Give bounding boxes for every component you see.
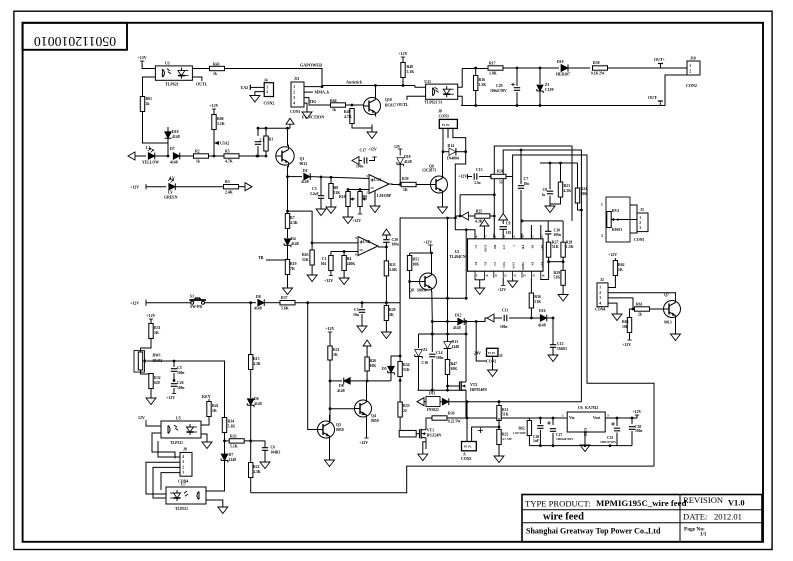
svg-text:1: 1 <box>639 216 641 220</box>
svg-text:100UF/50V: 100UF/50V <box>600 440 617 444</box>
drawing number box <box>23 23 127 50</box>
svg-text:8050: 8050 <box>371 419 379 423</box>
wire C10 rail <box>522 220 563 222</box>
opto U5 <box>161 421 201 438</box>
LED LV GREEN <box>169 183 176 190</box>
diode D18 <box>330 380 342 382</box>
svg-text:1K: 1K <box>212 409 217 413</box>
diode D19 <box>561 64 568 71</box>
capacitor C13 <box>468 176 473 178</box>
wire RV2 to J1 <box>616 219 637 221</box>
wire <box>250 86 264 88</box>
ground <box>584 441 586 445</box>
wire <box>192 68 209 70</box>
wire D14 right branch <box>455 152 475 239</box>
svg-text:VT2: VT2 <box>470 383 477 387</box>
svg-text:R27: R27 <box>552 241 559 245</box>
svg-text:R29: R29 <box>554 271 561 275</box>
svg-text:1000uF/50V: 1000uF/50V <box>556 437 574 441</box>
svg-text:1u: 1u <box>542 193 546 197</box>
diode D16 <box>540 315 547 322</box>
svg-text:1.5K: 1.5K <box>479 83 487 87</box>
svg-text:REVISION: REVISION <box>683 495 724 505</box>
wire J2 pin3 <box>608 298 633 309</box>
svg-text:D8: D8 <box>339 384 344 388</box>
svg-text:51K: 51K <box>502 413 509 417</box>
svg-text:Vout: Vout <box>593 416 601 420</box>
resistor R32 <box>141 370 152 374</box>
svg-text:2: 2 <box>182 465 184 469</box>
svg-text:C29: C29 <box>392 238 399 242</box>
svg-text:R30: R30 <box>593 61 600 65</box>
svg-text:KA7812: KA7812 <box>585 406 598 410</box>
resistor R30 <box>593 66 608 70</box>
ground <box>329 456 331 460</box>
svg-text:4.7K: 4.7K <box>344 115 352 119</box>
wire Q8 emitter <box>431 292 434 322</box>
svg-text:3: 3 <box>607 414 609 418</box>
capacitor C29 decouple <box>383 239 389 241</box>
svg-text:4148: 4148 <box>254 307 262 311</box>
opto U1 <box>155 66 192 80</box>
svg-text:CON2: CON2 <box>264 101 275 106</box>
svg-text:C7: C7 <box>524 177 529 181</box>
svg-text:R37: R37 <box>281 296 288 300</box>
LED L1 YELLOW <box>148 153 155 160</box>
wire cluster rail <box>540 162 578 164</box>
svg-text:+12V: +12V <box>138 55 147 60</box>
svg-text:J9: J9 <box>183 448 187 452</box>
wire to ground <box>287 275 289 285</box>
svg-text:C6: C6 <box>271 446 276 450</box>
svg-text:+12V: +12V <box>632 409 641 414</box>
wire <box>176 186 225 188</box>
svg-text:J5: J5 <box>499 354 503 358</box>
svg-text:R31: R31 <box>502 408 508 412</box>
svg-text:R23: R23 <box>564 184 571 188</box>
resistor R26 <box>366 350 368 357</box>
ground <box>311 271 313 275</box>
wire Q8 emitter to C14 <box>431 322 433 353</box>
svg-text:22: 22 <box>403 409 407 413</box>
ground <box>385 328 387 332</box>
wire to pin3 <box>490 216 494 239</box>
potentiometer RV2 box <box>606 197 630 242</box>
svg-text:2: 2 <box>639 221 641 225</box>
svg-text:FB: FB <box>521 245 525 249</box>
svg-text:YELLOW: YELLOW <box>142 161 159 165</box>
svg-text:D12: D12 <box>455 314 462 318</box>
wire <box>352 124 372 129</box>
pin 12 U2 <box>502 271 504 278</box>
power arrow <box>289 124 291 128</box>
svg-text:4148: 4148 <box>229 458 237 462</box>
resistor R51 <box>409 253 411 257</box>
wire pin2 MMA_b <box>304 91 313 93</box>
svg-text:+12V: +12V <box>608 252 617 257</box>
resistor R49 <box>350 109 354 124</box>
transistor Q3 <box>318 421 335 438</box>
ground <box>347 213 349 217</box>
diode D8 <box>251 302 256 304</box>
diode D7 <box>173 153 180 160</box>
svg-text:3: 3 <box>182 460 184 464</box>
zener D5 <box>390 373 392 381</box>
node U3A2 <box>214 141 219 145</box>
svg-text:103: 103 <box>506 231 512 235</box>
resistor C1 104 <box>330 252 332 256</box>
svg-text:4.7 5W: 4.7 5W <box>502 437 513 441</box>
svg-text:100n: 100n <box>436 356 443 360</box>
svg-text:R34: R34 <box>403 363 410 367</box>
wire <box>224 433 226 441</box>
wire <box>295 302 400 304</box>
svg-text:D16: D16 <box>539 309 546 313</box>
resistor R13 <box>250 303 252 355</box>
svg-text:0.1K 2W: 0.1K 2W <box>591 72 605 76</box>
svg-text:+12V: +12V <box>368 148 377 152</box>
svg-text:1K: 1K <box>333 353 338 357</box>
svg-text:104R3: 104R3 <box>271 451 281 455</box>
terminal R25 <box>461 212 468 220</box>
svg-text:R26: R26 <box>370 359 377 363</box>
power +12V out <box>636 415 638 418</box>
svg-text:R16: R16 <box>479 78 486 82</box>
svg-text:R41: R41 <box>212 404 219 408</box>
resistor R42 1.00 50W <box>527 421 531 436</box>
svg-text:4.3K: 4.3K <box>253 470 261 474</box>
svg-text:R43: R43 <box>213 63 220 67</box>
svg-text:10n: 10n <box>524 182 530 186</box>
wire to pin 8 column <box>465 230 467 298</box>
svg-text:R40: R40 <box>407 65 414 69</box>
diode D14 <box>449 148 456 155</box>
wire input rail <box>530 417 567 419</box>
resistor R33 <box>225 440 230 442</box>
svg-text:R63: R63 <box>622 320 629 324</box>
svg-text:13C2073: 13C2073 <box>422 169 436 173</box>
wire <box>143 112 169 144</box>
terminal <box>245 183 252 191</box>
svg-text:A: A <box>463 453 466 457</box>
wire down to Q3 base <box>308 303 317 430</box>
diode D13 <box>444 342 452 349</box>
svg-text:C9: C9 <box>506 222 511 226</box>
svg-text:10K: 10K <box>370 364 377 368</box>
svg-text:100uF/50V: 100uF/50V <box>490 89 507 93</box>
wire to Q1 base <box>239 155 267 157</box>
svg-text:C17: C17 <box>360 149 367 153</box>
svg-text:1: 1 <box>601 203 603 207</box>
svg-text:+12V: +12V <box>458 174 467 179</box>
svg-text:TLP621: TLP621 <box>165 82 179 87</box>
capacitor C26 <box>173 381 175 383</box>
wire <box>378 246 386 248</box>
pin 14 U2 <box>521 271 523 278</box>
pin 3 U2 <box>521 234 523 239</box>
svg-text:R62: R62 <box>618 263 625 267</box>
svg-text:R32: R32 <box>502 433 508 437</box>
svg-text:Q10: Q10 <box>385 98 392 102</box>
svg-text:C8: C8 <box>543 188 548 192</box>
wire ground branch <box>255 92 264 95</box>
wire wiper <box>148 361 225 418</box>
svg-text:2: 2 <box>266 90 268 94</box>
pin 6 U2 <box>493 234 495 239</box>
wire <box>498 418 500 430</box>
svg-text:R2: R2 <box>195 150 200 154</box>
svg-text:+12V: +12V <box>209 103 218 108</box>
svg-text:+12V: +12V <box>130 301 139 306</box>
svg-text:V1.0: V1.0 <box>728 499 745 508</box>
svg-text:6: 6 <box>355 253 357 257</box>
op-amp U3B <box>358 237 378 256</box>
wire <box>447 417 530 419</box>
wire bus nest <box>494 146 572 221</box>
pin 16 U2 <box>540 271 542 278</box>
svg-text:R20: R20 <box>389 308 396 312</box>
resistor R22 <box>249 463 253 478</box>
switch S1 <box>191 301 194 304</box>
svg-text:C10V: C10V <box>545 88 555 92</box>
pin 15 U2 <box>530 271 532 278</box>
svg-text:C10: C10 <box>554 229 561 233</box>
svg-text:R10: R10 <box>339 195 346 199</box>
wire VT2 drain join <box>466 402 468 418</box>
ground <box>222 503 224 507</box>
svg-text:R01: R01 <box>146 97 153 101</box>
wire <box>155 155 169 157</box>
pin 8 U2 <box>474 234 476 239</box>
svg-text:U6: U6 <box>578 406 583 410</box>
wire to gate resistor <box>399 417 401 434</box>
svg-text:100n: 100n <box>392 243 399 247</box>
svg-text:1/1: 1/1 <box>700 533 707 538</box>
power +12V U1 <box>141 61 143 64</box>
svg-text:KEY: KEY <box>202 394 211 399</box>
svg-text:+12V: +12V <box>398 51 407 56</box>
capacitor C14 <box>429 353 435 355</box>
potentiometer R9 <box>359 190 361 193</box>
svg-text:CT: CT <box>502 245 506 249</box>
svg-text:20K: 20K <box>581 192 588 196</box>
svg-text:5.1K: 5.1K <box>217 122 225 126</box>
svg-text:+12V: +12V <box>497 287 506 292</box>
wire pin4 to ground <box>304 103 307 108</box>
pin 11 U2 <box>493 271 495 278</box>
ground <box>492 366 494 370</box>
resistor R31b <box>498 402 500 406</box>
svg-text:C29: C29 <box>496 84 503 88</box>
svg-text:R19: R19 <box>290 262 297 266</box>
svg-text:R9: R9 <box>363 195 368 199</box>
resistor R5 <box>224 154 239 158</box>
wire emitter to ground <box>442 195 444 204</box>
zener D6 <box>250 370 252 399</box>
svg-text:1: 1 <box>562 414 564 418</box>
svg-text:Z2: Z2 <box>423 348 428 352</box>
resistor R16 <box>474 76 478 91</box>
svg-text:10k: 10k <box>622 325 629 329</box>
ground <box>361 322 363 326</box>
svg-text:2: 2 <box>293 90 295 94</box>
svg-text:620: 620 <box>154 381 160 385</box>
svg-text:Q3: Q3 <box>336 423 341 427</box>
svg-text:R36: R36 <box>448 412 455 416</box>
wire long right <box>250 478 252 493</box>
IC U2 TL494CN <box>468 239 544 271</box>
wire bottom rail OUT- <box>461 75 687 106</box>
wire GAPOWER <box>225 69 323 86</box>
svg-text:J8: J8 <box>438 110 442 114</box>
svg-text:S1: S1 <box>190 294 194 298</box>
svg-text:100n: 100n <box>356 165 363 169</box>
svg-text:LV: LV <box>168 191 173 195</box>
svg-text:C1: C1 <box>474 245 478 249</box>
pin 13 U2 <box>512 271 514 278</box>
wire <box>479 176 491 178</box>
wire OUT+ <box>608 67 688 69</box>
svg-text:CON1: CON1 <box>290 110 300 114</box>
svg-text:CON3: CON3 <box>634 238 644 242</box>
resistor R32b <box>497 430 501 445</box>
svg-text:2K: 2K <box>389 313 394 317</box>
svg-text:+12V: +12V <box>166 395 175 400</box>
potentiometer R10 <box>347 190 349 193</box>
ground <box>264 458 266 462</box>
svg-text:12V: 12V <box>394 145 401 149</box>
terminal C11 <box>487 314 494 322</box>
svg-text:IRF9540N: IRF9540N <box>470 388 487 392</box>
resistor R20 <box>385 303 387 306</box>
svg-text:1K: 1K <box>403 188 408 192</box>
svg-text:R11: R11 <box>389 263 395 267</box>
svg-text:D19: D19 <box>557 60 564 64</box>
wire pin1 <box>304 86 322 88</box>
svg-text:C11: C11 <box>502 309 508 313</box>
wire Q3 emitter <box>329 440 331 457</box>
svg-text:RW01: RW01 <box>612 228 622 232</box>
svg-text:51K: 51K <box>534 300 541 304</box>
wire Q4 collector <box>366 381 368 399</box>
svg-text:12V: 12V <box>138 415 145 420</box>
wire <box>464 318 487 322</box>
svg-text:1: 1 <box>599 286 601 290</box>
resistor R34 <box>222 418 226 433</box>
svg-text:OUT-: OUT- <box>648 95 658 100</box>
resistor R40 <box>401 63 405 78</box>
svg-text:3: 3 <box>639 226 641 230</box>
resistor R01 <box>140 97 144 112</box>
wire pins <box>442 128 444 151</box>
connector J9 CON4 <box>180 452 192 476</box>
resistor R63 <box>311 243 313 250</box>
transistor Q1 <box>276 147 294 165</box>
wire <box>492 356 494 366</box>
svg-text:D7: D7 <box>229 453 234 457</box>
wire <box>509 317 540 319</box>
svg-text:104: 104 <box>321 262 327 266</box>
ground C12 <box>552 353 554 355</box>
svg-text:OUT+: OUT+ <box>654 57 666 62</box>
wire <box>180 155 193 157</box>
pin 5 U2 <box>502 234 504 239</box>
pin 2 U2 <box>530 234 532 239</box>
ground <box>343 274 345 278</box>
connector J4 CON2 <box>264 83 273 97</box>
wire <box>449 401 582 403</box>
svg-text:TLP521: TLP521 <box>170 441 183 445</box>
svg-text:+12V: +12V <box>325 326 334 331</box>
svg-text:R32: R32 <box>154 376 161 380</box>
resistor R8 <box>330 177 332 184</box>
svg-text:R13: R13 <box>253 357 260 361</box>
ground U3A <box>374 191 376 205</box>
capacitor C3 <box>361 303 363 308</box>
resistor R21 <box>329 335 331 346</box>
transistor Q10 <box>364 98 381 115</box>
svg-text:R21: R21 <box>333 348 340 352</box>
capacitor C27 <box>552 418 554 425</box>
svg-text:4148: 4148 <box>337 389 345 393</box>
resistor R4 240K <box>343 252 345 256</box>
svg-text:1K: 1K <box>618 268 623 272</box>
power +12V R40 <box>402 57 404 60</box>
wire <box>329 360 331 423</box>
svg-text:P1 P2: P1 P2 <box>488 352 496 355</box>
svg-text:5.6K: 5.6K <box>389 268 397 272</box>
svg-text:VT1: VT1 <box>427 429 434 433</box>
svg-text:J10: J10 <box>690 57 696 61</box>
resistor R1 <box>265 128 267 136</box>
svg-text:D11: D11 <box>429 392 435 396</box>
svg-text:9013: 9013 <box>664 321 672 325</box>
svg-text:5.6K: 5.6K <box>281 307 289 311</box>
wire Q8 collector <box>431 253 433 272</box>
svg-text:2.2uF: 2.2uF <box>310 192 319 196</box>
svg-text:U3A2: U3A2 <box>220 142 229 146</box>
pin 9 U2 <box>474 271 476 278</box>
svg-text:U7: U7 <box>181 482 186 487</box>
wire bus bottom <box>251 466 654 493</box>
svg-text:GAPOWER: GAPOWER <box>300 63 323 68</box>
svg-text:R5: R5 <box>225 150 230 154</box>
wire Q4 emitter +12V <box>366 419 368 437</box>
wire emitter ground <box>675 319 677 330</box>
ground <box>287 284 289 288</box>
svg-text:TR: TR <box>258 255 264 260</box>
svg-text:+12V: +12V <box>359 440 368 445</box>
svg-text:050112010010: 050112010010 <box>34 34 116 49</box>
svg-text:4148: 4148 <box>254 402 262 406</box>
opto U11 <box>426 84 458 99</box>
zener Z1 <box>539 68 541 84</box>
connector J1 CON3 <box>637 213 648 232</box>
wire U5 right bottom to ground <box>201 434 207 438</box>
svg-text:4148: 4148 <box>172 135 180 139</box>
wire output rail <box>605 417 637 419</box>
resistor R36b <box>530 278 532 294</box>
wire <box>416 184 430 186</box>
wire <box>239 186 253 188</box>
svg-text:R63: R63 <box>302 253 309 257</box>
capacitor C12 <box>552 318 554 345</box>
svg-text:Q4: Q4 <box>371 414 376 418</box>
wire <box>213 112 215 115</box>
svg-text:BUZ24N: BUZ24N <box>427 434 442 438</box>
pin 1 U2 <box>540 234 542 239</box>
svg-text:IN-: IN- <box>530 245 534 249</box>
